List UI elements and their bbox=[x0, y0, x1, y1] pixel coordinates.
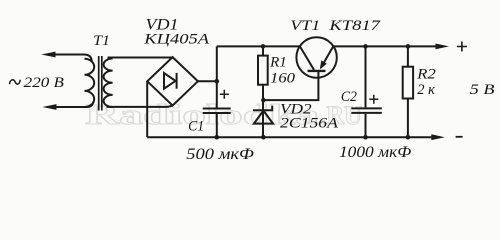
svg-text:2С156А: 2С156А bbox=[280, 116, 339, 132]
svg-text:T1: T1 bbox=[93, 33, 110, 49]
svg-text:1000 мкФ: 1000 мкФ bbox=[339, 144, 411, 161]
svg-text:КТ817: КТ817 bbox=[328, 18, 382, 34]
svg-text:R2: R2 bbox=[416, 66, 436, 82]
svg-text:500 мкФ: 500 мкФ bbox=[186, 146, 254, 163]
svg-text:C2: C2 bbox=[341, 89, 357, 105]
svg-text:160: 160 bbox=[270, 71, 296, 87]
svg-text:C1: C1 bbox=[188, 119, 204, 135]
svg-text:КЦ405А: КЦ405А bbox=[143, 31, 210, 47]
svg-text:VT1: VT1 bbox=[290, 18, 320, 34]
svg-text:R1: R1 bbox=[269, 55, 287, 71]
svg-text:220 В: 220 В bbox=[24, 75, 64, 91]
svg-text:2 к: 2 к bbox=[417, 82, 436, 98]
svg-text:5 В: 5 В bbox=[470, 82, 495, 98]
